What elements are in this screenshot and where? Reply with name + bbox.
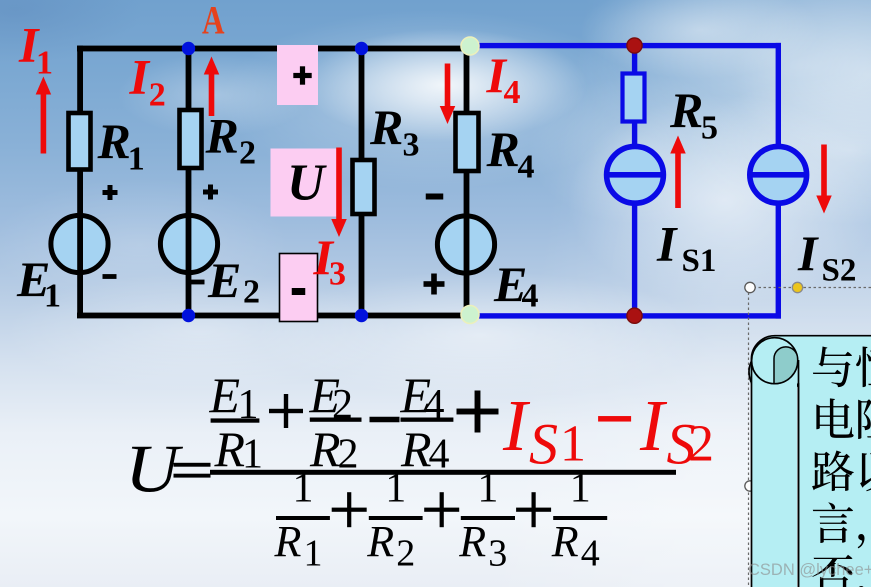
label R1 bbox=[97, 113, 145, 177]
svg-text:R: R bbox=[205, 108, 239, 164]
selection dashed guide horizontal bbox=[749, 287, 871, 289]
node bottom IS1 dot bbox=[627, 308, 642, 323]
svg-text:R: R bbox=[486, 121, 520, 177]
voltage source E1 bbox=[51, 215, 108, 272]
pink box minus (U polarity -) bbox=[280, 254, 318, 322]
node bottom E2 dot bbox=[182, 309, 195, 322]
svg-text:4: 4 bbox=[522, 278, 539, 315]
node bottom R3 dot bbox=[355, 309, 368, 322]
svg-text:I: I bbox=[502, 385, 531, 466]
selection handle white left-middle bbox=[745, 481, 755, 491]
svg-text:R: R bbox=[274, 517, 302, 566]
svg-text:3: 3 bbox=[488, 532, 507, 574]
voltage source E2 bbox=[160, 215, 217, 272]
callout vertical scroll shape bbox=[749, 336, 871, 587]
label E2 bbox=[207, 252, 260, 311]
watermark CSDN bbox=[748, 561, 871, 579]
plus above E1 bbox=[103, 185, 118, 200]
callout chinese text bbox=[812, 346, 871, 587]
wire branch IS1 vertical blue bbox=[632, 43, 637, 319]
svg-text:2: 2 bbox=[243, 274, 260, 311]
svg-text:2: 2 bbox=[688, 416, 714, 473]
svg-text:1: 1 bbox=[44, 278, 61, 315]
label R4 bbox=[486, 121, 535, 186]
resistor R2 bbox=[180, 110, 202, 168]
wire bottom blue bus bbox=[468, 313, 781, 318]
pink box U bbox=[271, 149, 337, 217]
svg-text:R: R bbox=[309, 421, 341, 477]
svg-text:U: U bbox=[287, 155, 327, 212]
arrow IS1 up bbox=[670, 136, 686, 209]
label I4 bbox=[486, 47, 521, 111]
svg-text:1: 1 bbox=[36, 45, 53, 82]
svg-text:I: I bbox=[656, 216, 678, 272]
minus below E1 bbox=[103, 274, 117, 279]
resistor R3 bbox=[353, 160, 375, 214]
svg-text:5: 5 bbox=[701, 110, 718, 147]
minus sign in pink box bbox=[292, 288, 306, 295]
selection dashed guide vertical bbox=[748, 288, 750, 587]
svg-text:3: 3 bbox=[329, 256, 346, 293]
label U bbox=[287, 155, 327, 212]
plus below E4 bbox=[424, 274, 445, 295]
label I3 bbox=[313, 229, 347, 293]
arrow I2 up bbox=[204, 57, 220, 117]
svg-text:3: 3 bbox=[403, 127, 420, 164]
wire branch R3 vertical bbox=[359, 46, 365, 316]
pink box plus (U polarity +) bbox=[277, 45, 318, 105]
arrow IS2 down bbox=[816, 145, 832, 214]
minus below E2 bbox=[190, 280, 205, 285]
node bottom green dot bbox=[461, 306, 479, 324]
svg-text:1: 1 bbox=[128, 140, 145, 177]
current source IS1 bbox=[607, 146, 664, 203]
svg-text:4: 4 bbox=[581, 532, 600, 574]
plus sign in pink box bbox=[293, 66, 311, 84]
svg-text:1: 1 bbox=[304, 532, 323, 574]
svg-text:2: 2 bbox=[396, 532, 415, 574]
node A dot bbox=[182, 42, 195, 55]
node top IS1 dot bbox=[627, 38, 642, 53]
svg-text:U: U bbox=[125, 430, 183, 506]
current source IS2 bbox=[750, 146, 807, 203]
wire top blue bus bbox=[468, 43, 781, 48]
svg-text:1: 1 bbox=[292, 466, 313, 512]
svg-text:I: I bbox=[129, 49, 151, 105]
selection handle yellow rotate bbox=[792, 282, 802, 292]
svg-text:S: S bbox=[529, 412, 558, 477]
svg-text:I: I bbox=[797, 225, 819, 281]
arrow I4 down bbox=[440, 64, 456, 125]
svg-text:4: 4 bbox=[518, 149, 535, 186]
plus above E2 bbox=[203, 185, 218, 200]
wire left branch E1 vertical bbox=[77, 46, 83, 316]
svg-text:A: A bbox=[202, 0, 225, 43]
svg-text:1: 1 bbox=[560, 416, 586, 473]
svg-text:R: R bbox=[366, 517, 394, 566]
svg-text:S2: S2 bbox=[822, 253, 857, 289]
label E4 bbox=[493, 256, 539, 315]
node top R3 dot bbox=[355, 42, 368, 55]
svg-text:CSDN @lychee++: CSDN @lychee++ bbox=[748, 561, 871, 579]
label IS1 bbox=[656, 216, 716, 280]
node top green dot bbox=[461, 37, 479, 55]
label IS2 bbox=[797, 225, 856, 289]
wire right branch IS2 vertical blue bbox=[776, 43, 781, 319]
svg-text:2: 2 bbox=[149, 77, 166, 114]
svg-text:R: R bbox=[97, 113, 131, 169]
svg-text:1: 1 bbox=[477, 466, 498, 512]
svg-text:S1: S1 bbox=[682, 243, 717, 279]
svg-text:R: R bbox=[369, 99, 403, 155]
svg-text:E: E bbox=[207, 252, 241, 308]
svg-text:I: I bbox=[639, 385, 668, 466]
formula U equals fraction bbox=[125, 367, 714, 574]
arrow U down bbox=[331, 148, 347, 238]
label I1 bbox=[18, 17, 53, 82]
svg-text:4: 4 bbox=[504, 74, 521, 111]
svg-text:1: 1 bbox=[385, 466, 406, 512]
label R3 bbox=[369, 99, 420, 164]
minus above E4 bbox=[426, 194, 444, 200]
resistor R1 bbox=[69, 113, 91, 170]
label A node bbox=[202, 0, 225, 43]
wire branch E2 vertical bbox=[186, 46, 192, 316]
svg-text:R: R bbox=[669, 82, 703, 138]
svg-text:R: R bbox=[214, 421, 246, 477]
wire top black bus bbox=[77, 46, 467, 52]
label E1 bbox=[16, 251, 61, 315]
selection handle white top-left bbox=[745, 282, 755, 292]
svg-text:2: 2 bbox=[239, 135, 256, 172]
wire bottom black bus bbox=[77, 313, 470, 319]
arrow I1 up bbox=[36, 77, 52, 154]
resistor R4 bbox=[456, 113, 479, 171]
svg-text:R: R bbox=[551, 517, 579, 566]
label I2 bbox=[129, 49, 166, 114]
svg-text:R: R bbox=[458, 517, 486, 566]
svg-text:E: E bbox=[209, 367, 241, 423]
svg-text:1: 1 bbox=[570, 466, 591, 512]
label R2 bbox=[205, 108, 257, 172]
voltage source E4 bbox=[437, 216, 494, 275]
label R5 bbox=[669, 82, 718, 147]
resistor R5 bbox=[623, 74, 645, 122]
wire branch R4-E4 vertical bbox=[464, 46, 470, 316]
